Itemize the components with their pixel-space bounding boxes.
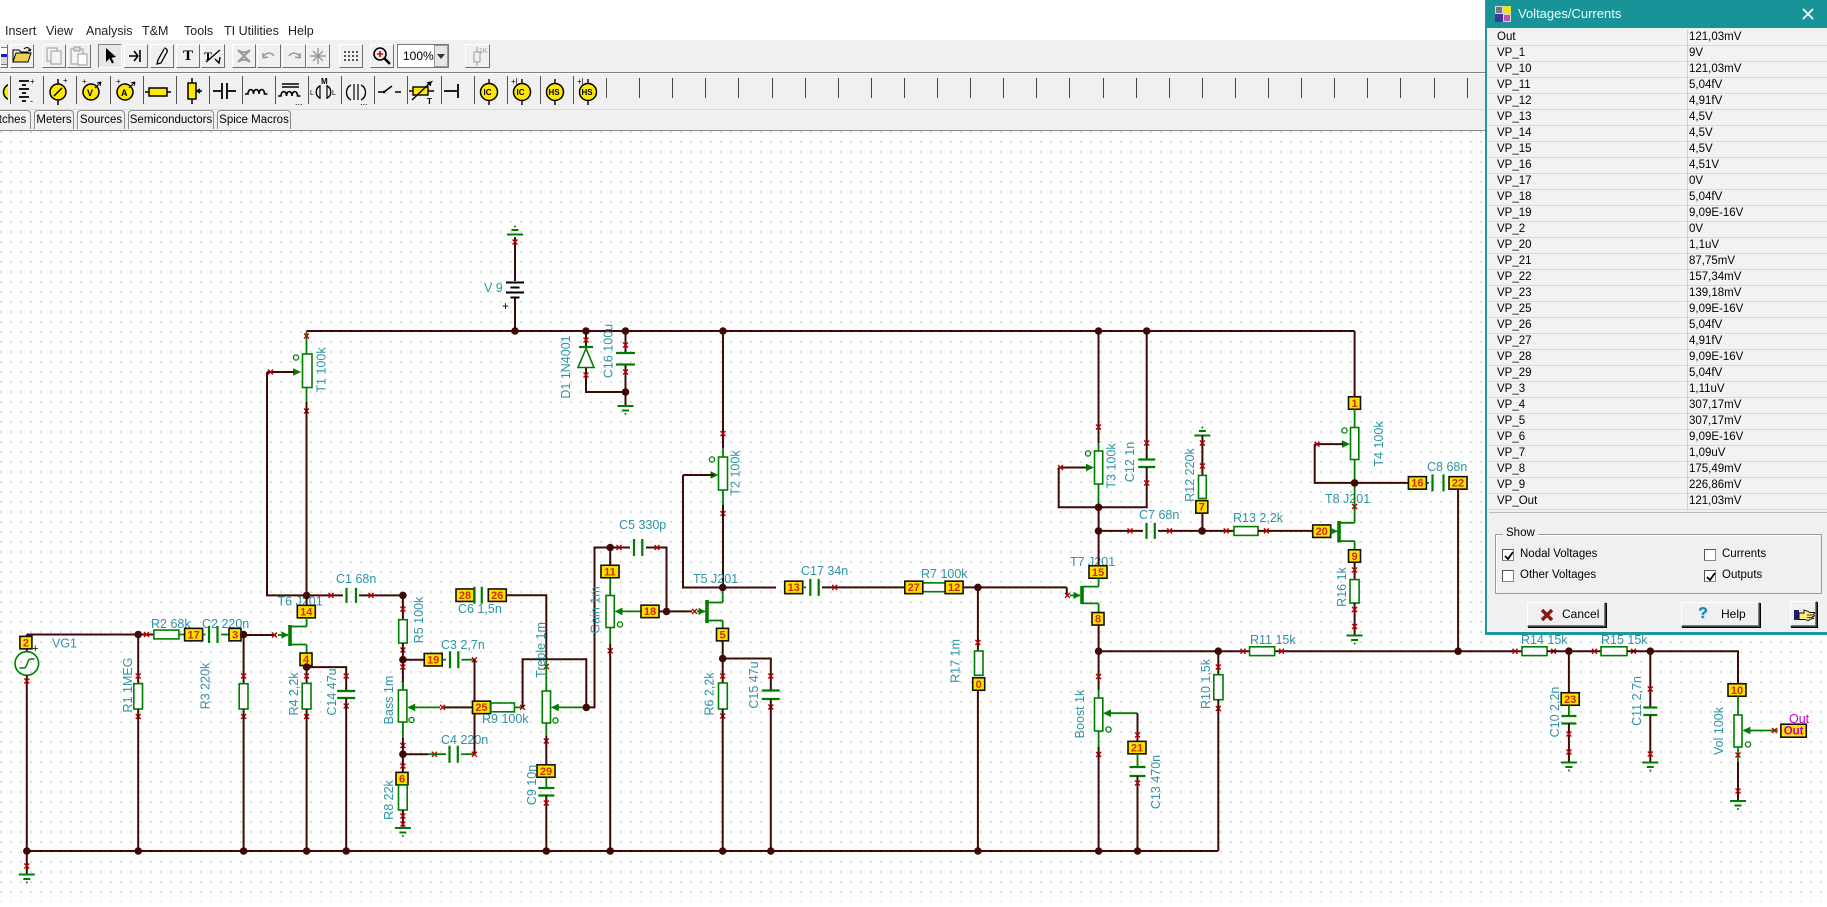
wire boost wiper down (1137, 713, 1139, 741)
svg-text:C6 1,5n: C6 1,5n (458, 602, 502, 616)
svg-text:15: 15 (1092, 567, 1104, 579)
label 18 (641, 605, 659, 618)
label 26 (488, 589, 506, 602)
label 25 (473, 701, 491, 714)
toolbar row 1 background (0, 40, 1827, 73)
svg-text:M: M (321, 77, 328, 86)
label 20 (1313, 525, 1331, 538)
junction T5 drain node (719, 584, 727, 592)
tab row background (0, 110, 1827, 131)
junction rail R6 (719, 847, 727, 855)
ground below C10 (1561, 763, 1577, 772)
svg-text:C3 2,7n: C3 2,7n (441, 638, 485, 652)
svg-text:R6 2,2k: R6 2,2k (703, 672, 717, 716)
svg-text:16: 16 (1411, 478, 1423, 490)
svg-text:C13 470n: C13 470n (1149, 755, 1163, 809)
svg-text:19: 19 (427, 655, 439, 667)
ground below C11 (1642, 763, 1658, 772)
svg-text:V 9: V 9 (484, 281, 503, 295)
ground at VG1 bottom (26, 851, 28, 874)
label 9 (1349, 550, 1361, 563)
label 12 (945, 581, 963, 594)
battery V1 (V 9) (514, 237, 516, 281)
junction T6 source node (303, 663, 311, 671)
wire T6 drain up to C1 node (306, 618, 308, 627)
junction C12/rail (1143, 327, 1151, 335)
potentiometer P1 Gain 1m (609, 548, 611, 566)
wire T1 wiper loop (267, 372, 307, 595)
svg-text:C10 2,2n: C10 2,2n (1548, 687, 1562, 738)
junction R1 top (134, 631, 142, 639)
label 7 (1196, 501, 1208, 514)
svg-text:C16 100u: C16 100u (602, 324, 616, 378)
junction rail Boost (1095, 847, 1103, 855)
svg-text:R7 100k: R7 100k (921, 567, 968, 581)
svg-text:R5 100k: R5 100k (412, 596, 426, 643)
svg-text:Gain 1m: Gain 1m (589, 586, 603, 633)
svg-text:29: 29 (540, 766, 552, 778)
label 3 (229, 628, 241, 641)
Voltages/Currents dialog (1485, 0, 1827, 635)
svg-text:L: L (332, 90, 336, 97)
junction R5 bottom node (399, 656, 407, 664)
label 1 (1349, 397, 1361, 410)
svg-text:+: + (63, 76, 68, 85)
svg-text:+: + (116, 77, 121, 86)
label 17 (185, 628, 203, 641)
label 22 (1449, 477, 1467, 490)
junction V9/rail (511, 327, 519, 335)
junction R15/C11 (1647, 647, 1655, 655)
power reference symbol above V9 (507, 226, 523, 235)
svg-text:-: - (30, 96, 33, 106)
svg-text:21: 21 (1131, 742, 1143, 754)
svg-text:C8 68n: C8 68n (1427, 460, 1467, 474)
ground below R16 (1347, 636, 1363, 645)
junction rail C13 (1134, 847, 1142, 855)
ground below R8 (395, 828, 411, 837)
wire T8 source down (1354, 541, 1356, 550)
svg-text:C12 1n: C12 1n (1123, 442, 1137, 482)
label 29 (537, 765, 555, 778)
svg-text:IC: IC (484, 88, 492, 97)
wire bottom ground rail (27, 850, 1219, 852)
junction rail R1 (134, 847, 142, 855)
svg-text:T2 100k: T2 100k (729, 450, 743, 496)
wire C6 right to treble top (506, 595, 546, 660)
junction C7 left on T7 drain wire (1095, 527, 1103, 535)
toolbar row 2 background (0, 74, 1827, 110)
junction R10/output rail (1215, 647, 1223, 655)
svg-text:14: 14 (300, 606, 313, 618)
svg-text:T3 100k: T3 100k (1105, 443, 1119, 489)
svg-text:0: 0 (976, 679, 982, 691)
wire T1 bottom to node (306, 388, 308, 403)
svg-text:C5 330p: C5 330p (619, 518, 666, 532)
wire T7 source down (1098, 603, 1100, 613)
svg-text:11: 11 (604, 566, 616, 578)
svg-text:VG1: VG1 (52, 637, 77, 651)
svg-text:R15 15k: R15 15k (1601, 633, 1648, 647)
wire T8 drain up (1354, 483, 1356, 523)
wire VG1 bottom (26, 675, 28, 851)
potentiometer T4 100k (1354, 331, 1356, 397)
svg-text:Boost 1k: Boost 1k (1073, 689, 1087, 738)
svg-text:R1 1MEG: R1 1MEG (121, 658, 135, 713)
potentiometer T3 100k (1098, 331, 1100, 443)
wire T4 wiper loop (1315, 444, 1355, 483)
svg-text:...: ... (360, 97, 368, 107)
label 10 (1728, 684, 1746, 697)
ground below C16 (625, 392, 627, 405)
svg-text:R14 15k: R14 15k (1521, 633, 1568, 647)
label 8 (1092, 613, 1104, 626)
svg-text:R12 220k: R12 220k (1183, 447, 1197, 501)
svg-text:L: L (310, 90, 314, 97)
svg-text:R3 220k: R3 220k (199, 662, 213, 709)
svg-text:1K: 1K (479, 48, 488, 55)
menu bar (0, 0, 1827, 40)
svg-text:Treble 1m: Treble 1m (534, 622, 548, 678)
wire T2 bottom (722, 490, 724, 505)
label 6 (396, 772, 408, 785)
ground below Vol (1730, 801, 1746, 810)
junction rail R4 (303, 847, 311, 855)
potentiometer T1 100k (306, 331, 308, 354)
junction C5 left node (606, 544, 614, 552)
junction R14/C10 (1565, 647, 1573, 655)
label 23 (1561, 693, 1579, 706)
label 28 (456, 589, 474, 602)
svg-text:26: 26 (491, 590, 503, 602)
junction R7/R17 node (974, 584, 982, 592)
svg-text:17: 17 (187, 629, 199, 641)
junction R12/C7/R13 node (1198, 527, 1206, 535)
svg-text:+: + (30, 77, 35, 86)
svg-text:T4 100k: T4 100k (1372, 421, 1386, 467)
svg-text:...: ... (295, 97, 303, 107)
svg-text:3: 3 (232, 629, 238, 641)
label 4 (300, 653, 312, 666)
junction T3 bottom node (1095, 504, 1103, 512)
junction D1/rail (582, 327, 590, 335)
junction treble wiper (583, 704, 591, 712)
svg-text:Bass 1m: Bass 1m (382, 676, 396, 725)
junction C16 bottom node (622, 388, 630, 396)
label 11 (601, 565, 619, 578)
svg-text:R11 15k: R11 15k (1250, 633, 1296, 647)
wire T5 source down (722, 621, 724, 629)
svg-text:C9 10n: C9 10n (525, 765, 539, 805)
svg-text:+: + (82, 77, 87, 86)
junction rail C14 (342, 847, 350, 855)
svg-text:R8 22k: R8 22k (382, 779, 396, 819)
junction C16/rail (622, 327, 630, 335)
junction rail R3 (240, 847, 248, 855)
label 14 (297, 605, 315, 618)
svg-text:C15 47u: C15 47u (747, 661, 761, 708)
wire top power rail (307, 330, 1355, 332)
wire T2 wiper down to T5 drain node (683, 475, 723, 588)
junction bass bottom node (399, 750, 407, 758)
svg-text:R4 2,2k: R4 2,2k (287, 672, 301, 716)
svg-text:7: 7 (1199, 502, 1205, 514)
junction rail VG1 (23, 847, 31, 855)
label 0 (973, 678, 985, 691)
svg-text:IC: IC (517, 88, 525, 97)
junction T4 bottom / T8 drain (1351, 479, 1359, 487)
svg-text:R17 1m: R17 1m (949, 639, 963, 683)
junction rail R17 (974, 847, 982, 855)
junction T7 source / boost node (1095, 647, 1103, 655)
junction T3/rail (1095, 327, 1103, 335)
svg-text:T8 J201: T8 J201 (1325, 492, 1370, 506)
junction R3 top (240, 631, 248, 639)
label 5 (717, 628, 729, 641)
wire T5 drain up (722, 588, 724, 603)
svg-text:9: 9 (1351, 551, 1357, 563)
junction T2/rail (719, 327, 727, 335)
svg-text:C1 68n: C1 68n (336, 572, 376, 586)
wire R9 right loop to treble wiper (523, 659, 587, 707)
svg-text:13: 13 (788, 582, 800, 594)
svg-text:C14 47u: C14 47u (325, 668, 339, 715)
wire T3 wiper loop (1059, 468, 1099, 508)
svg-text:C7 68n: C7 68n (1139, 508, 1179, 522)
wire T6 source down (306, 645, 308, 654)
wire treble bottom (545, 723, 547, 736)
svg-text:R10 1,5k: R10 1,5k (1199, 658, 1213, 709)
svg-text:2: 2 (23, 637, 29, 649)
svg-text:C17 34n: C17 34n (801, 564, 848, 578)
wire tone stack node X vertical (474, 660, 476, 755)
svg-text:18: 18 (644, 606, 656, 618)
svg-text:R9 100k: R9 100k (482, 712, 529, 726)
svg-text:T1 100k: T1 100k (315, 347, 329, 393)
label 15 (1089, 566, 1107, 579)
label 27 (905, 581, 923, 594)
svg-text:T: T (427, 97, 432, 106)
wire output rail (1099, 650, 1250, 652)
wire C8 right down to output rail (1457, 489, 1459, 651)
capacitor C16 100u (625, 331, 627, 353)
svg-text:5: 5 (719, 629, 725, 641)
svg-text:Out: Out (1784, 726, 1804, 738)
svg-text:8: 8 (1095, 614, 1101, 626)
wire T7 drain up to T3 node (1098, 578, 1100, 587)
label 16 (1408, 477, 1426, 490)
wire C5 left to treble wiper (586, 548, 610, 708)
svg-text:6: 6 (399, 773, 405, 785)
svg-text:HS: HS (549, 88, 561, 97)
svg-text:+|: +| (511, 77, 518, 86)
svg-text:+: + (32, 643, 38, 655)
svg-text:10: 10 (1731, 685, 1743, 697)
svg-text:23: 23 (1564, 694, 1576, 706)
potentiometer T2 100k (722, 331, 724, 448)
svg-text:28: 28 (459, 590, 471, 602)
junction C1 left node (303, 592, 311, 600)
svg-text:T5 J201: T5 J201 (693, 572, 738, 586)
junction C8 / R11 node (1454, 647, 1462, 655)
svg-text:Vol 100k: Vol 100k (1712, 706, 1726, 755)
svg-text:27: 27 (908, 582, 920, 594)
wire gain pot bottom to ground rail (609, 628, 611, 645)
junction rail C15 (767, 847, 775, 855)
label 13 (785, 581, 803, 594)
svg-text:R13 2,2k: R13 2,2k (1233, 511, 1284, 525)
svg-text:C4 220n: C4 220n (441, 733, 488, 747)
svg-text:A: A (121, 88, 128, 98)
svg-text:22: 22 (1452, 478, 1464, 490)
svg-text:C11 2,7n: C11 2,7n (1630, 676, 1644, 726)
svg-text:D1 1N4001: D1 1N4001 (559, 335, 573, 398)
junction C1/C6/R5 node (399, 592, 407, 600)
diode D1 1N4001 (585, 331, 587, 347)
svg-text:V: V (87, 88, 93, 98)
svg-text:HS: HS (582, 88, 594, 97)
junction rail C9 (543, 847, 551, 855)
svg-text:1: 1 (1351, 398, 1357, 410)
svg-text:+: + (502, 299, 509, 313)
svg-text:12: 12 (948, 582, 960, 594)
junction rail Gain (606, 847, 614, 855)
label 2 (20, 636, 32, 649)
label 19 (424, 653, 442, 666)
svg-text:20: 20 (1316, 526, 1328, 538)
junction gain wiper / T5 gate (663, 608, 671, 616)
junction T5 source node (719, 655, 727, 663)
label 21 (1128, 741, 1146, 754)
wire T5 drain to C17 (723, 587, 776, 589)
svg-text:+|: +| (577, 77, 584, 86)
svg-text:R16 1k: R16 1k (1335, 566, 1349, 606)
